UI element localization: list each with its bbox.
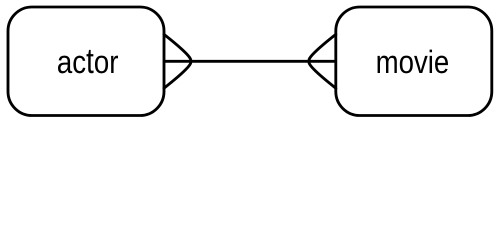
- arrowhead at actor side (open triangle pointing right): [164, 34, 191, 88]
- wire: relationship line between actor and movie: [164, 60, 336, 63]
- entity box movie: [336, 7, 492, 116]
- entity box actor: [8, 7, 164, 116]
- arrowhead at movie side (open triangle pointing left): [309, 34, 336, 88]
- label movie: [378, 50, 448, 74]
- label actor: [58, 50, 118, 73]
